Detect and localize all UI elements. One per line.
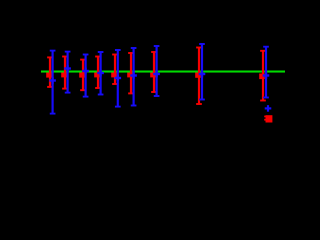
red square marker, series 1, point 4 bbox=[94, 72, 100, 78]
red square marker, series 1, point 7 bbox=[150, 72, 156, 78]
red error bar, series 1, point 5 bbox=[114, 55, 116, 85]
red square marker, series 1, point 2 bbox=[61, 72, 67, 78]
blue bottom cap, point 5 bbox=[115, 106, 121, 108]
blue plus marker, series 2, point 5 bbox=[115, 77, 122, 79]
red bottom cap, point 7 bbox=[151, 91, 157, 93]
blue error bar, series 2, point 2 bbox=[67, 52, 69, 93]
blue plus marker, series 2, point 9 bbox=[263, 74, 270, 76]
blue bottom cap, point 4 bbox=[98, 94, 104, 96]
red bottom cap, point 8 bbox=[196, 103, 202, 105]
red top cap, point 7 bbox=[151, 51, 157, 53]
blue top cap, point 5 bbox=[115, 49, 121, 51]
blue plus marker, series 2, point 3 bbox=[82, 70, 89, 72]
green horizontal reference line bbox=[41, 71, 285, 73]
legend: red cap notch upper bbox=[264, 116, 265, 118]
blue error bar, series 2, point 1 bbox=[52, 51, 54, 114]
blue plus marker, series 2, point 7 bbox=[153, 73, 160, 75]
blue error bar, series 2, point 8 bbox=[201, 44, 203, 100]
blue top cap, point 6 bbox=[131, 47, 137, 49]
red square marker, series 1, point 5 bbox=[111, 72, 117, 78]
red error bar, series 1, point 1 bbox=[49, 57, 51, 87]
blue error bar, series 2, point 7 bbox=[156, 46, 158, 96]
blue bottom cap, point 6 bbox=[131, 105, 137, 107]
blue plus marker, series 2, point 8 bbox=[199, 73, 206, 75]
blue bottom cap, point 9 bbox=[263, 97, 269, 99]
legend: red cap notch lower bbox=[264, 119, 265, 121]
red top cap, point 6 bbox=[128, 52, 134, 54]
red top cap, point 9 bbox=[260, 50, 266, 52]
red square marker, series 1, point 1 bbox=[46, 72, 52, 78]
red top cap, point 4 bbox=[95, 56, 101, 58]
red bottom cap, point 5 bbox=[112, 83, 118, 85]
blue error bar, series 2, point 3 bbox=[85, 55, 87, 97]
legend: red square symbol bbox=[266, 115, 273, 122]
blue error bar, series 2, point 6 bbox=[133, 48, 135, 106]
red error bar, series 1, point 2 bbox=[64, 57, 66, 89]
blue bottom cap, point 7 bbox=[154, 95, 160, 97]
legend: blue plus symbol bbox=[265, 107, 272, 109]
blue bottom cap, point 3 bbox=[83, 96, 89, 98]
red square marker, series 1, point 6 bbox=[127, 72, 133, 78]
blue plus marker, series 2, point 6 bbox=[130, 74, 137, 76]
blue plus marker, series 2, point 1 bbox=[49, 79, 56, 81]
blue top cap, point 2 bbox=[65, 51, 71, 53]
red top cap, point 3 bbox=[80, 59, 86, 61]
red square marker, series 1, point 3 bbox=[79, 72, 85, 78]
blue bottom cap, point 2 bbox=[65, 92, 71, 94]
blue bottom cap, point 8 bbox=[199, 99, 205, 101]
blue top cap, point 3 bbox=[83, 54, 89, 56]
red bottom cap, point 4 bbox=[95, 87, 101, 89]
blue plus marker, series 2, point 4 bbox=[97, 72, 104, 74]
blue top cap, point 8 bbox=[199, 43, 205, 45]
blue error bar, series 2, point 4 bbox=[100, 52, 102, 95]
red error bar, series 1, point 7 bbox=[153, 52, 155, 92]
red square marker, series 1, point 9 bbox=[259, 74, 265, 80]
red bottom cap, point 2 bbox=[62, 88, 68, 90]
blue error bar, series 2, point 5 bbox=[117, 50, 119, 107]
red error bar, series 1, point 6 bbox=[130, 53, 132, 93]
blue error bar, series 2, point 9 bbox=[265, 47, 267, 98]
blue plus marker, series 2, point 2 bbox=[64, 67, 71, 69]
red top cap, point 2 bbox=[62, 56, 68, 58]
blue top cap, point 1 bbox=[50, 50, 56, 52]
blue top cap, point 4 bbox=[98, 51, 104, 53]
red square marker, series 1, point 8 bbox=[195, 72, 201, 78]
red top cap, point 5 bbox=[112, 54, 118, 56]
blue top cap, point 9 bbox=[263, 46, 269, 48]
red error bar, series 1, point 8 bbox=[198, 48, 200, 105]
red error bar, series 1, point 3 bbox=[82, 60, 84, 91]
red error bar, series 1, point 4 bbox=[97, 57, 99, 89]
red bottom cap, point 1 bbox=[47, 86, 53, 88]
blue bottom cap, point 1 bbox=[50, 113, 56, 115]
red bottom cap, point 3 bbox=[80, 89, 86, 91]
red error bar, series 1, point 9 bbox=[262, 51, 264, 101]
blue top cap, point 7 bbox=[154, 45, 160, 47]
red top cap, point 1 bbox=[47, 56, 53, 58]
red bottom cap, point 6 bbox=[128, 92, 134, 94]
red bottom cap, point 9 bbox=[260, 100, 266, 102]
red top cap, point 8 bbox=[196, 47, 202, 49]
